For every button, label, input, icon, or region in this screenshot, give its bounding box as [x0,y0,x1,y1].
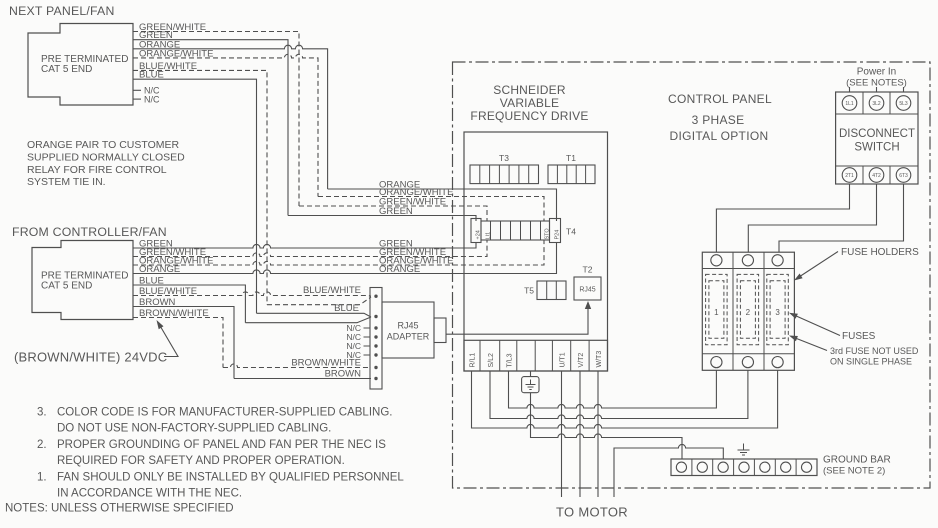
svg-text:T5: T5 [524,286,534,296]
svg-text:1.: 1. [37,472,47,484]
svg-text:RJ45: RJ45 [397,321,418,331]
svg-text:5L3: 5L3 [899,101,908,107]
svg-text:T/L3: T/L3 [507,353,514,367]
svg-text:ORANGE: ORANGE [379,264,420,275]
svg-text:SUPPLIED NORMALLY CLOSED: SUPPLIED NORMALLY CLOSED [27,151,185,163]
svg-text:3: 3 [775,308,780,317]
svg-text:DISCONNECT: DISCONNECT [839,128,915,140]
svg-text:ADAPTER: ADAPTER [387,332,430,342]
svg-text:W/T3: W/T3 [596,351,603,368]
svg-text:STO: STO [545,228,551,240]
svg-text:S/L2: S/L2 [488,353,495,368]
svg-text:T1: T1 [566,153,576,163]
svg-text:(SEE NOTE 2): (SEE NOTE 2) [823,466,885,477]
svg-text:N/C: N/C [346,350,361,360]
svg-text:2T1: 2T1 [845,173,854,179]
svg-text:3L2: 3L2 [872,101,881,107]
svg-text:2: 2 [746,308,751,317]
svg-text:IN ACCORDANCE WITH THE NEC.: IN ACCORDANCE WITH THE NEC. [57,488,242,500]
svg-text:SWITCH: SWITCH [854,142,899,154]
svg-text:N/C: N/C [144,94,160,104]
svg-text:GREEN: GREEN [379,206,413,217]
svg-text:CAT 5 END: CAT 5 END [41,281,92,292]
svg-text:TO MOTOR: TO MOTOR [556,505,628,520]
svg-text:1: 1 [714,308,719,317]
svg-text:NEXT PANEL/FAN: NEXT PANEL/FAN [9,4,115,18]
svg-text:FUSE HOLDERS: FUSE HOLDERS [841,247,919,258]
svg-text:2.: 2. [37,439,47,451]
svg-text:BROWN: BROWN [325,368,362,379]
svg-text:GROUND BAR: GROUND BAR [823,455,891,466]
svg-text:RELAY FOR FIRE CONTROL: RELAY FOR FIRE CONTROL [27,164,167,176]
svg-text:(BROWN/WHITE) 24VDC: (BROWN/WHITE) 24VDC [14,350,167,365]
svg-text:U/T1: U/T1 [560,352,567,367]
svg-text:V/T2: V/T2 [578,353,585,368]
svg-text:(SEE NOTES): (SEE NOTES) [846,78,907,89]
svg-text:4T2: 4T2 [872,173,881,179]
svg-text:VARIABLE: VARIABLE [500,96,559,110]
svg-text:COLOR CODE IS FOR MANUFACTURER: COLOR CODE IS FOR MANUFACTURER-SUPPLIED … [57,407,392,419]
svg-text:FREQUENCY DRIVE: FREQUENCY DRIVE [470,109,588,123]
svg-text:SYSTEM TIE IN.: SYSTEM TIE IN. [27,176,106,188]
svg-text:P24: P24 [555,230,561,240]
svg-text:BLUE: BLUE [334,303,359,314]
svg-text:NOTES: UNLESS OTHERWISE SPECIF: NOTES: UNLESS OTHERWISE SPECIFIED [5,503,234,515]
svg-text:DIGITAL OPTION: DIGITAL OPTION [670,129,769,143]
svg-text:3.: 3. [37,407,47,419]
svg-text:3 PHASE: 3 PHASE [692,113,745,127]
svg-text:FROM CONTROLLER/FAN: FROM CONTROLLER/FAN [12,225,167,239]
svg-text:LI1: LI1 [486,232,492,240]
svg-text:DO NOT USE NON-FACTORY-SUPPLIE: DO NOT USE NON-FACTORY-SUPPLIED CABLING. [57,423,331,435]
svg-text:ON SINGLE PHASE: ON SINGLE PHASE [830,357,912,367]
svg-text:REQUIRED FOR SAFETY AND PROPER: REQUIRED FOR SAFETY AND PROPER OPERATION… [57,455,345,467]
svg-text:1L1: 1L1 [845,101,854,107]
svg-text:ORANGE PAIR TO CUSTOMER: ORANGE PAIR TO CUSTOMER [27,139,179,151]
svg-text:T2: T2 [583,265,593,275]
svg-text:RJ45: RJ45 [579,287,595,294]
svg-text:3rd FUSE NOT USED: 3rd FUSE NOT USED [830,346,919,356]
svg-text:T4: T4 [566,227,576,237]
svg-text:BLUE/WHITE: BLUE/WHITE [303,285,361,296]
svg-text:CONTROL PANEL: CONTROL PANEL [668,92,772,106]
svg-text:Power In: Power In [857,67,896,78]
svg-text:PROPER GROUNDING OF PANEL AND: PROPER GROUNDING OF PANEL AND FAN PER TH… [57,439,386,451]
svg-text:+24: +24 [476,230,482,239]
svg-text:T3: T3 [499,153,509,163]
svg-text:CAT 5 END: CAT 5 END [41,64,92,75]
svg-text:SCHNEIDER: SCHNEIDER [493,83,566,97]
svg-text:6T3: 6T3 [899,173,908,179]
svg-text:FAN SHOULD ONLY BE INSTALLED B: FAN SHOULD ONLY BE INSTALLED BY QUALIFIE… [57,472,404,484]
svg-text:FUSES: FUSES [842,331,876,342]
svg-text:R/L1: R/L1 [470,353,477,368]
